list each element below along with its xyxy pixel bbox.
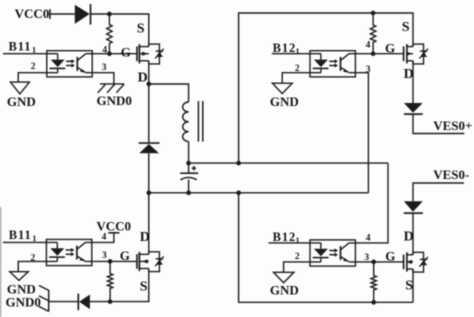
svg-text:G: G bbox=[385, 40, 395, 55]
svg-text:D: D bbox=[140, 230, 150, 245]
svg-text:GND0: GND0 bbox=[97, 93, 132, 108]
optocoupler U3 (B11 bottom) bbox=[46, 239, 91, 265]
Q1 body diode bbox=[155, 49, 164, 59]
ground GND (top-right) bbox=[272, 83, 292, 93]
wire U2 pin2 to GND bbox=[282, 73, 321, 84]
optocoupler U1 (B11 top) bbox=[47, 51, 92, 77]
resistor R3 bbox=[107, 261, 112, 301]
ground GND (top-left) bbox=[10, 82, 29, 94]
svg-text:S: S bbox=[405, 278, 413, 293]
svg-text:G: G bbox=[121, 45, 131, 60]
wire U1 pin3 to GND0 bbox=[85, 73, 114, 84]
wire Q1 drain column down bbox=[148, 84, 150, 143]
svg-text:2: 2 bbox=[295, 252, 300, 262]
bus wire node2 bbox=[149, 192, 369, 194]
diode D3 (output VES0+) bbox=[404, 103, 423, 114]
wire bus1 down to U4 pin4 bbox=[349, 163, 388, 243]
wire Q1 drain bbox=[148, 61, 150, 84]
svg-text:D: D bbox=[404, 67, 414, 82]
svg-text:VES0+: VES0+ bbox=[433, 118, 472, 133]
svg-text:B11: B11 bbox=[9, 228, 32, 242]
wire U1 pin2 to GND bbox=[18, 73, 58, 82]
Q4 body diode bbox=[419, 257, 428, 267]
diode D5 (VES0- input) bbox=[404, 201, 423, 213]
wire U2 pin3 down to node2 bbox=[349, 73, 369, 193]
svg-text:3: 3 bbox=[102, 63, 107, 73]
U3 LED and phototransistor bbox=[49, 242, 85, 261]
svg-text:2: 2 bbox=[31, 62, 36, 72]
net label B12 (top) bbox=[273, 41, 300, 56]
svg-text:4: 4 bbox=[102, 232, 107, 242]
svg-text:GND0: GND0 bbox=[6, 295, 41, 310]
optocoupler U2 (B12 top) bbox=[310, 51, 355, 77]
diode D4 (bottom-left) bbox=[78, 294, 90, 310]
chassis ground GND0 (bottom-left) bbox=[39, 285, 49, 311]
junction node gate Q4 bbox=[371, 260, 376, 265]
wire B11 input to U3 LED bbox=[3, 241, 57, 243]
wire B12 input to U4 LED bbox=[269, 242, 321, 244]
wire VCC0 to diode D1 bbox=[50, 13, 75, 15]
wire U3 pin3 to Q3 gate bbox=[85, 260, 137, 262]
wire Q3 source to bottom-left bus bbox=[110, 269, 149, 302]
bus wire node1 bbox=[189, 162, 388, 164]
wire winding to node1 bbox=[188, 142, 190, 164]
ground GND (bottom-left) bbox=[10, 272, 28, 281]
wire Q2 drain bbox=[412, 61, 414, 103]
mosfet Q2 bbox=[404, 44, 424, 64]
junction node bbox=[107, 12, 112, 17]
diode D2 (freewheel, center) bbox=[139, 143, 160, 153]
junction node2 left bbox=[146, 190, 151, 195]
transformer winding L1 bbox=[183, 102, 189, 142]
junction node1 (winding/cap) bbox=[186, 161, 191, 166]
junction node gate Q3 bbox=[108, 259, 113, 264]
wire B11 input to U1 LED bbox=[3, 53, 58, 55]
svg-text:S: S bbox=[140, 279, 148, 294]
wire D5 to Q4 drain bbox=[412, 213, 414, 255]
net label VCC0 (top) bbox=[15, 6, 50, 21]
net label B11 (bottom) bbox=[9, 228, 37, 243]
svg-text:S: S bbox=[137, 22, 145, 37]
svg-text:4: 4 bbox=[366, 234, 371, 244]
junction node drain Q1 bbox=[146, 82, 151, 87]
svg-text:GND: GND bbox=[7, 94, 36, 109]
net label B12 (bottom) bbox=[273, 230, 300, 245]
svg-text:D: D bbox=[404, 229, 414, 244]
wire VES0- to diode D5 bbox=[413, 183, 464, 201]
wire to Q2 source bbox=[373, 13, 413, 47]
wire U3 pin2 to GND bbox=[18, 261, 57, 271]
wire U4 pin2 to GND bbox=[284, 262, 321, 272]
ground GND (bottom-right) bbox=[274, 272, 294, 282]
wire node2 down to bottom bus bbox=[239, 193, 413, 302]
vcc terminal bar bbox=[108, 232, 119, 234]
svg-text:4: 4 bbox=[366, 41, 371, 51]
junction node gate Q1 bbox=[107, 51, 112, 56]
junction R4 bottom bbox=[371, 300, 376, 305]
mosfet Q3 bbox=[137, 252, 159, 272]
svg-text:1: 1 bbox=[32, 233, 36, 243]
svg-text:D: D bbox=[138, 71, 148, 86]
junction node top right bbox=[371, 11, 376, 16]
svg-text:1: 1 bbox=[32, 44, 36, 54]
svg-text:GND: GND bbox=[270, 282, 299, 297]
junction R3 bottom bbox=[108, 299, 113, 304]
Q2 body diode bbox=[419, 49, 428, 59]
Q3 body diode bbox=[155, 256, 164, 266]
wire U2 collector to Q2 gate bbox=[349, 53, 404, 55]
wire B12 input to U2 LED bbox=[272, 53, 321, 55]
transformer core bbox=[198, 101, 202, 142]
U1 LED and phototransistor bbox=[50, 54, 86, 73]
svg-text:VCC0: VCC0 bbox=[15, 6, 50, 21]
svg-text:S: S bbox=[402, 20, 410, 35]
U2 LED and phototransistor bbox=[313, 54, 349, 73]
wire VES0+ bbox=[413, 114, 464, 133]
resistor R2 bbox=[370, 13, 375, 54]
wire D4 to chassis GND0 bbox=[49, 301, 79, 303]
svg-text:G: G bbox=[120, 248, 130, 263]
mosfet Q1 bbox=[137, 44, 159, 64]
net label B11 (top) bbox=[9, 39, 37, 54]
svg-text:1: 1 bbox=[295, 46, 299, 56]
chassis ground GND0 (top) bbox=[98, 84, 124, 93]
junction node1/top-branch bbox=[236, 161, 241, 166]
svg-text:VES0-: VES0- bbox=[433, 167, 469, 182]
junction node2 mid bbox=[236, 190, 241, 195]
wire to Q1 source bbox=[109, 14, 148, 47]
resistor R4 bbox=[371, 262, 376, 302]
wire node1 up and across top bbox=[239, 13, 374, 163]
svg-text:G: G bbox=[385, 248, 395, 263]
wire Q4 source to bottom bus bbox=[412, 269, 414, 302]
U4 LED and phototransistor bbox=[313, 243, 349, 262]
optocoupler U4 (B12 bottom) bbox=[310, 240, 355, 266]
svg-text:3: 3 bbox=[102, 251, 107, 261]
svg-text:VCC0: VCC0 bbox=[96, 218, 131, 233]
svg-text:B12: B12 bbox=[273, 230, 297, 244]
svg-text:B11: B11 bbox=[9, 39, 32, 53]
junction node gate Q2 bbox=[371, 51, 376, 56]
wire D2 to Q3 drain bbox=[148, 153, 150, 254]
wire U4 pin3 to Q4 gate bbox=[349, 261, 404, 263]
mosfet Q4 bbox=[404, 252, 424, 272]
capacitor C1 (polarized) bbox=[180, 163, 198, 193]
diode D1 bbox=[75, 4, 91, 25]
wire U3 pin4 to VCC0 terminal bbox=[85, 233, 114, 243]
junction cap bottom bbox=[186, 190, 191, 195]
wire U1 collector to Q1 gate bbox=[86, 53, 137, 55]
svg-text:1: 1 bbox=[295, 235, 299, 245]
resistor R1 bbox=[107, 14, 112, 54]
wire drain to transformer bbox=[149, 84, 189, 102]
scan artifact left edge bbox=[0, 207, 2, 317]
svg-text:GND: GND bbox=[270, 94, 299, 109]
wire D1 to junction bbox=[91, 13, 110, 15]
wire bus to diode D4 bbox=[90, 301, 110, 303]
